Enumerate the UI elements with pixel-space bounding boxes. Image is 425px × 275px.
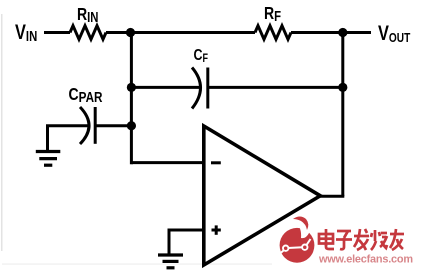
capacitor CPAR curved plate: [80, 107, 89, 144]
wire: inverting input lead: [131, 161, 204, 164]
发: [354, 229, 369, 250]
电: [319, 229, 334, 249]
svg-text:CPAR: CPAR: [69, 84, 103, 105]
label CPAR: [69, 84, 103, 105]
label RIN: [77, 4, 98, 25]
label VOUT: [378, 21, 410, 45]
svg-text:RF: RF: [264, 3, 281, 24]
烧: [371, 230, 387, 250]
wire: CPAR left lead + ground drop: [48, 126, 89, 151]
op-amp U1: [204, 126, 320, 265]
watermark logo (elecfans): [280, 217, 315, 263]
node: CF left junction: [127, 83, 136, 92]
resistor RF: [255, 26, 291, 40]
svg-text:VIN: VIN: [15, 20, 37, 44]
子: [336, 231, 352, 249]
wire: inverting node vertical: [130, 33, 133, 165]
label CF: [194, 47, 208, 66]
capacitor CF curved plate: [192, 68, 201, 109]
wire: output vertical: [341, 33, 344, 197]
wire: CF right lead: [208, 86, 343, 89]
op-amp minus sign: [211, 161, 221, 164]
faint scan border left: [1, 14, 2, 251]
resistor RIN: [70, 26, 106, 40]
node: CF right junction: [338, 83, 347, 92]
capacitor CPAR straight plate: [94, 107, 97, 144]
友: [390, 229, 404, 250]
wire: CPAR right lead: [96, 124, 132, 127]
op-amp plus sign: [212, 225, 221, 234]
node: RIN/feedback junction: [126, 28, 135, 37]
label RF: [264, 3, 281, 24]
capacitor CF straight plate: [206, 68, 209, 109]
svg-text:CF: CF: [194, 47, 208, 66]
wire: output stub from op-amp apex: [318, 195, 344, 198]
watermark text: 电子发烧友 (drawn strokes): [319, 229, 404, 250]
wire: CF left lead: [131, 86, 199, 89]
ground (CPAR): [36, 152, 61, 166]
wire: non-inverting input lead: [169, 230, 204, 255]
svg-text:VOUT: VOUT: [378, 21, 410, 45]
label VIN: [15, 20, 37, 44]
node: output junction top: [338, 28, 347, 37]
ground (non-inverting input): [158, 255, 183, 268]
svg-text:www.elecfans.com: www.elecfans.com: [318, 254, 413, 266]
wire: top right segment to Vout: [291, 31, 371, 34]
wire: Vin lead: [44, 31, 70, 34]
node: CPAR junction: [127, 121, 136, 130]
svg-text:RIN: RIN: [77, 4, 98, 25]
wire: top middle segment: [106, 31, 255, 34]
